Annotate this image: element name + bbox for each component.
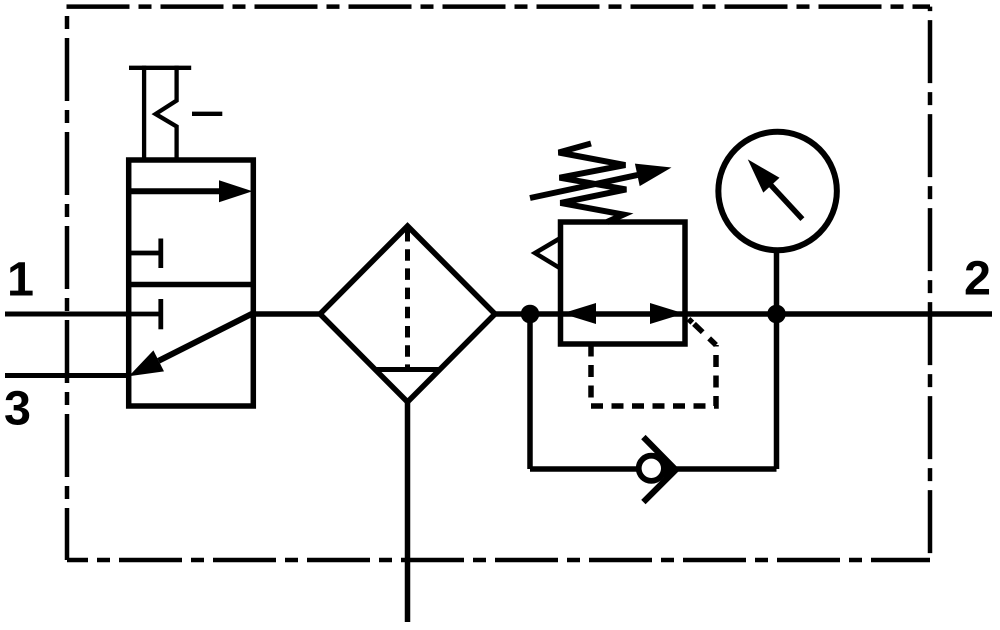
wire: bypass branch left vertical [527, 314, 533, 469]
enclosure border (dash-dot assembly boundary) [67, 7, 931, 560]
filter F1 element (dashed) [405, 230, 410, 369]
valve V1 manual slide actuator [129, 66, 222, 160]
svg-text:3: 3 [4, 382, 31, 436]
wire: gauge stem and bypass right vertical [774, 250, 780, 469]
regulator R1 adjustment spring [559, 144, 627, 223]
regulator R1 body [561, 222, 686, 344]
regulator R1 pilot line nub at main line [689, 319, 693, 323]
on/off valve V1 (3/2 way) body [129, 160, 254, 406]
wire: port 1 supply line [5, 312, 131, 317]
wire: main line filter to regulator to port 2 [494, 311, 992, 317]
regulator R1 pilot line diagonal (dashed) [691, 321, 716, 345]
regulator R1 relief vent triangle [535, 238, 561, 269]
valve V1 blocked port tee (closed position) [131, 299, 161, 329]
filter F1 body (diamond) [320, 226, 495, 402]
pressure gauge G1 [718, 132, 837, 251]
regulator R1 pilot line (dashed) [591, 345, 716, 407]
wire: port 3 exhaust line [5, 373, 131, 378]
svg-text:1: 1 [7, 253, 34, 307]
regulator R1 flow arrow left [562, 303, 596, 324]
filter F1 condensate level line [375, 367, 440, 372]
valve V1 blocked port tee (open position) [131, 239, 161, 269]
wire: main line from valve to filter [253, 311, 321, 317]
wire: filter drain line [405, 402, 411, 622]
svg-text:2: 2 [964, 252, 991, 306]
wire: bypass bottom line [530, 466, 777, 472]
regulator R1 flow arrow right [650, 303, 684, 324]
regulator R1 adjustment arrow [530, 164, 672, 198]
junction node at regulator inlet [521, 305, 540, 324]
valve V1 exhaust flow arrow (closed position, 2 to 3) [129, 314, 253, 377]
valve V1 flow arrow (open position) [131, 180, 253, 202]
check valve CV1 [639, 437, 676, 502]
junction node at gauge stem [767, 305, 786, 324]
